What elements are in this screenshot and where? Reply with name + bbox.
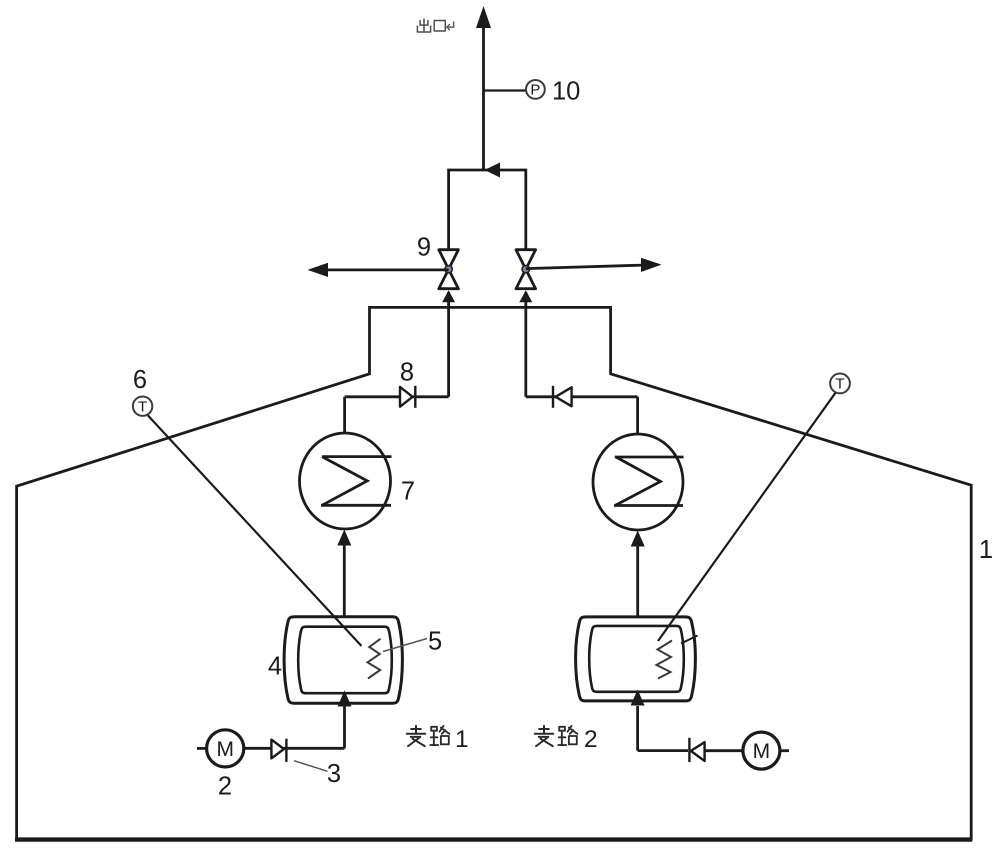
- valve feed riser left: [447, 292, 450, 397]
- control valve 9 left: [439, 250, 459, 289]
- check valve right branch: [689, 738, 704, 762]
- control valve 9 right: [516, 250, 536, 289]
- svg-text:6: 6: [133, 366, 147, 394]
- svg-text:3: 3: [327, 760, 341, 788]
- svg-text:1: 1: [455, 726, 469, 753]
- temperature sensor line left: [147, 414, 362, 646]
- temperature sensor line right: [658, 392, 836, 641]
- svg-text:M: M: [216, 738, 234, 761]
- check valve right (mirrored): [553, 386, 572, 408]
- check valve 8 line: [345, 395, 449, 398]
- right vessel inlet arrow: [636, 706, 639, 751]
- leader line to 3: [294, 761, 328, 772]
- heat exchanger 7 left: [300, 433, 391, 529]
- motor right stub: [780, 749, 789, 752]
- vent line right: [526, 265, 644, 269]
- check valve 3: [271, 739, 286, 762]
- vessel right inner: [589, 626, 684, 692]
- heating element right: [657, 641, 673, 679]
- pump line left: [244, 747, 345, 750]
- heat exchanger right: [593, 434, 683, 530]
- motor M 2 left: [207, 730, 244, 767]
- pressure tap line: [484, 89, 527, 91]
- left HX riser top: [343, 397, 346, 434]
- svg-text:T: T: [138, 399, 147, 416]
- temperature sensor T left: [133, 397, 152, 416]
- svg-text:5: 5: [428, 628, 442, 656]
- svg-text:1: 1: [979, 536, 993, 564]
- pump line right: [638, 749, 688, 752]
- svg-text:T: T: [835, 376, 844, 393]
- label 支路 2 (branch 2): [535, 726, 553, 746]
- svg-text:4: 4: [268, 653, 282, 681]
- motor left stub: [197, 747, 207, 750]
- check valve right branch line: [526, 395, 638, 398]
- vessel 4 left inner: [298, 627, 392, 694]
- enclosure tank 1: [17, 307, 972, 839]
- svg-text:M: M: [753, 740, 771, 763]
- svg-text:P: P: [530, 82, 540, 99]
- svg-text:2: 2: [218, 773, 232, 801]
- label 支路 1 (branch 1): [407, 726, 425, 746]
- svg-text:10: 10: [552, 78, 580, 106]
- vessel 4 left outer: [284, 617, 402, 703]
- svg-text:9: 9: [417, 234, 431, 262]
- vessel left inlet arrow: [343, 706, 346, 748]
- svg-text:8: 8: [400, 359, 414, 387]
- vent line left: [325, 268, 449, 271]
- outlet pipe vertical: [482, 26, 485, 170]
- junction header line: [449, 170, 526, 250]
- svg-text:7: 7: [401, 478, 415, 506]
- leader line to 5: [383, 639, 427, 652]
- vessel right outer: [576, 617, 696, 701]
- left HX inlet arrow: [343, 544, 346, 617]
- temperature sensor T right: [830, 374, 850, 394]
- check valve 8: [400, 386, 415, 408]
- outlet arrowhead: [476, 6, 491, 28]
- return mark: [447, 22, 454, 30]
- enclosure bottom thick line: [15, 837, 972, 841]
- right HX riser top: [636, 397, 639, 435]
- label 出口 (outlet): [417, 19, 430, 32]
- heating element 5 left: [368, 639, 381, 679]
- junction arrowhead: [485, 163, 501, 178]
- right HX inlet arrow: [636, 546, 639, 618]
- right vessel tick: [681, 636, 698, 644]
- pressure gauge P: [526, 80, 545, 99]
- motor M right: [743, 732, 780, 769]
- valve feed riser right: [524, 292, 527, 397]
- svg-text:2: 2: [584, 726, 598, 753]
